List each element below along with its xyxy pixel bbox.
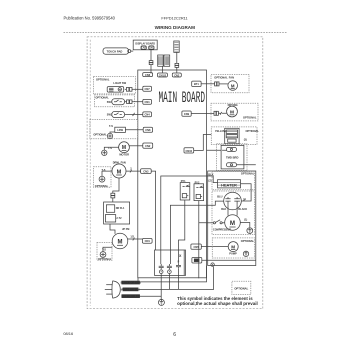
svg-text:CN2: CN2 [174,73,180,77]
wire float box to pump fan [110,224,115,234]
plug prong 3 [106,293,112,295]
label box P3 vertical [158,55,164,66]
optional box pump [212,238,254,258]
wire idw to CN8 [125,129,143,131]
connector CN1B [142,239,152,244]
fan motor M4 [228,81,238,91]
svg-text:CN6: CN6 [145,73,151,77]
svg-text:optional,the actual shape shal: optional,the actual shape shall prevail [177,301,258,306]
svg-text:Publication No. 5995679540: Publication No. 5995679540 [64,15,116,20]
wire board edge to black label [137,278,139,281]
thermal cutout motor [102,150,107,155]
svg-text:GREEN OR Y/G: GREEN OR Y/G [121,294,140,298]
relay RY1 [180,183,190,200]
svg-text:CN9: CN9 [184,112,190,116]
svg-text:CN7: CN7 [144,87,150,91]
svg-text:BLK: BLK [221,208,226,211]
svg-text:LIGHT SW: LIGHT SW [113,81,126,85]
title rule [64,31,288,33]
relay RY2 [194,184,204,201]
svg-text:(3): (3) [244,139,247,142]
plug pin 1 [159,264,164,274]
optional box tmd [217,144,248,171]
svg-text:CN10: CN10 [185,149,192,153]
switch SW1 [112,99,125,105]
svg-text:TMD BRD: TMD BRD [226,156,238,160]
svg-text:CN4: CN4 [144,113,150,117]
screw terminal [211,263,214,266]
wire label boxes to CN1/2 [161,66,163,73]
connector BT1 [192,81,201,86]
wire CN3 drop [151,171,155,250]
wire cutout to fan motor [102,171,112,176]
ground symbol mains [158,299,164,305]
inline plug fan [215,82,228,86]
wire compressor to ground [240,223,250,228]
svg-text:CN3: CN3 [143,169,149,173]
svg-text:(2): (2) [208,180,211,183]
wire pin3 junction [169,268,178,289]
overload switch [207,220,225,224]
wire fan motor to CN3 [126,170,141,173]
inline plug light sw [125,88,134,92]
svg-text:CN8: CN8 [145,128,151,132]
right enclosure [208,171,256,266]
wire harness drop [176,52,178,73]
wire fan motor down [113,178,119,193]
wire cap to compressor [228,204,237,216]
svg-text:CN1: CN1 [145,239,151,243]
wire motor to CN2 [129,145,142,147]
tmd bottom connector [227,163,237,167]
svg-text:T-S: T-S [108,147,112,150]
svg-text:WIRING DIAGRAM: WIRING DIAGRAM [155,25,195,30]
optional box drying fan [211,103,258,121]
pump fan motor M3 [112,233,128,249]
svg-text:3P: 3P [243,198,246,201]
optional box light sw [94,77,136,94]
svg-text:MAIN BOARD: MAIN BOARD [159,89,206,107]
connector CN1/2 [158,73,168,77]
wire CN9 lead [191,113,214,115]
svg-text:X: X [179,254,182,258]
inline plug sw1 [125,100,134,104]
connector CN5 [191,244,201,249]
wire neutral vertical [170,205,206,264]
wire harness label stack [174,41,179,52]
wire CN10 to right [194,135,212,151]
wire neutral white [138,267,213,290]
optional box pump cutout [97,243,112,261]
wire label white [121,287,140,291]
wire sw1 to CN1 [134,101,143,103]
svg-text:CN1/2: CN1/2 [159,73,167,77]
ground compressor [247,228,253,234]
connector CN4 [143,112,152,117]
svg-text:2-T2: 2-T2 [116,217,122,220]
switch SW2 [112,111,125,117]
svg-text:M: M [118,240,123,246]
wire relay2 drop [199,201,207,279]
terminal board [225,128,239,143]
inline plug fan drop [111,193,115,198]
connector CN2 display [141,46,147,50]
fan motor M2 [112,164,126,178]
thermistor symbol [107,133,112,138]
svg-text:OPTIONAL: OPTIONAL [246,129,260,133]
wire tmd top lead [207,149,227,151]
pump motor M7 [228,242,238,252]
diagram inner left dashed border [89,40,91,306]
wire BT1 lead [201,83,215,85]
svg-text:PUMP: PUMP [229,252,237,256]
tmd board [221,145,244,169]
svg-text:FFPD12C2R11: FFPD12C2R11 [161,15,187,20]
wire line black [140,266,207,282]
svg-text:BLACK: BLACK [238,208,247,211]
ground pump [243,251,248,256]
svg-text:OPTIONAL: OPTIONAL [234,286,248,290]
svg-text:OPTIONAL: OPTIONAL [96,78,110,82]
power input box [155,250,186,275]
svg-text:(1): (1) [244,218,247,221]
wire touchpad to display board [131,50,133,52]
svg-text:WHITE OR BLU: WHITE OR BLU [121,287,140,291]
svg-text:CN1: CN1 [144,100,150,104]
svg-text:BLU: BLU [217,196,222,199]
svg-text:BLACK OR BRN: BLACK OR BRN [121,281,141,285]
drying fan motor M5 [227,106,238,117]
svg-text:FAN: FAN [229,75,234,79]
wire light sw to CN7 [133,88,142,90]
inline plug drying [214,111,227,115]
wire green ground [140,295,162,297]
connector CN3 [141,169,152,174]
motor M1 [119,142,130,153]
svg-text:OPTIONAL: OPTIONAL [241,172,255,176]
touch pad [103,48,131,54]
wire heater out [241,184,252,201]
compressor M6 [225,215,241,231]
optional box compressor [212,191,255,235]
wire CN5 lead [201,246,228,248]
wire line feed vertical [161,176,207,264]
wire pin1 to ground [160,274,162,300]
svg-text:CN1: CN1 [149,48,154,50]
connector CN1 display [149,46,155,50]
svg-text:OPTIONAL: OPTIONAL [241,239,255,243]
wire sw2 to CN4 [125,113,143,116]
diagram outer dashed border [87,37,263,309]
svg-text:DR FL1: DR FL1 [116,207,125,210]
capacitor C1 [224,192,242,210]
inline plug display cable [149,61,153,65]
main board U1 [138,70,207,278]
power plug [112,281,120,298]
legend optional box [232,281,251,294]
wire label black [121,281,141,285]
svg-text:M: M [117,169,122,175]
display board U2 [133,40,157,50]
svg-text:CN2: CN2 [141,48,146,50]
plug pin 3 [176,263,181,268]
optional box fan [211,75,249,93]
wire thermistor stub [110,132,115,133]
optional box terminal board [211,127,257,145]
wire label green [121,294,140,298]
optional box thermostat [90,120,138,139]
svg-text:CN2: CN2 [145,144,151,148]
connector CN8 [143,127,152,132]
svg-text:T-S: T-S [109,125,113,128]
plug prong 1 [106,284,112,286]
svg-text:MOTOR: MOTOR [119,152,129,156]
float assembly box [104,202,130,224]
connector CN9 [182,111,191,116]
svg-text:I-DW: I-DW [117,129,123,132]
svg-text:CN5: CN5 [193,245,199,249]
connector D1 [192,258,202,264]
plug prong 2 [105,288,112,290]
svg-text:OPTIONAL: OPTIONAL [95,96,109,100]
wire heater feed [207,176,218,183]
connector CN2L [143,143,153,148]
light sw S1 [107,87,124,93]
wire relay1 drop [179,200,185,263]
connector CN2 [172,73,181,77]
svg-text:BT1: BT1 [194,82,199,86]
svg-text:OPTIONAL: OPTIONAL [243,115,257,119]
svg-text:08/16: 08/16 [63,331,73,336]
svg-text:6: 6 [173,332,176,338]
connector CN7 [143,86,152,91]
svg-text:TOUCH PAD: TOUCH PAD [107,50,123,54]
sensor I-DW [115,127,126,132]
wire jp fm to CN1B [128,238,143,241]
svg-text:JP FM: JP FM [122,228,129,231]
label box P4 vertical [164,55,170,66]
thermal cutout pump [100,252,106,258]
svg-text:OPTIONAL: OPTIONAL [93,132,107,136]
connector CN10 [184,148,194,153]
svg-text:OPTIONAL: OPTIONAL [214,76,228,80]
wire plug to float box [112,198,114,202]
wire cutout to jp fm [103,247,112,251]
plug pin 2 [167,264,172,274]
connector CN6 [143,73,153,77]
optional box heater [212,172,255,190]
svg-text:M: M [231,245,235,250]
heater R1 [218,180,241,188]
wire tmd bottom lead [237,164,256,166]
optional box fan cutout [93,167,111,188]
svg-text:M: M [230,220,235,227]
wire CN1 to CN6 [150,49,152,73]
optional box sw1 [94,95,134,107]
wire cutout to motor [104,147,118,150]
svg-text:HEATER: HEATER [221,183,237,188]
wire cap feed [207,201,224,205]
svg-text:DISPLAY BOARD: DISPLAY BOARD [135,42,155,45]
wire D1 lead [202,259,256,261]
inline plug harness [175,63,179,67]
thermal cutout fan [99,176,105,182]
float switch DR FL1 [106,205,125,213]
svg-text:OPTIONAL: OPTIONAL [95,184,109,188]
svg-text:M: M [231,83,235,88]
connector CN1 [143,99,152,104]
float switch 2-T2 [105,215,122,222]
svg-text:OPTIONAL: OPTIONAL [98,257,112,261]
tmd top connector [227,147,237,151]
